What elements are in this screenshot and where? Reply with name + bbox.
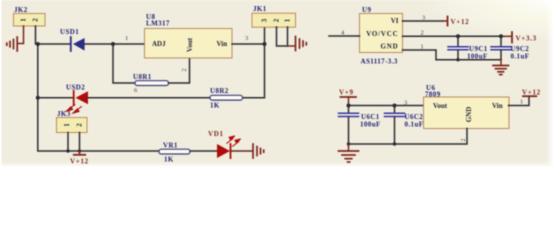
power port V+12 (JK3) bar xyxy=(74,154,85,156)
svg-text:0.1uF: 0.1uF xyxy=(511,53,530,61)
power port V+12 (U9) bar xyxy=(447,17,449,26)
wire node C up to JK1 pin3 xyxy=(264,28,266,45)
wire U9 VO to V+3.3 xyxy=(403,35,502,37)
svg-text:V+9: V+9 xyxy=(339,89,354,97)
wire VR1 to VD1 xyxy=(190,150,217,152)
ground (VD1, rotated right) xyxy=(253,144,264,158)
capacitor U9C1 top stub xyxy=(457,36,459,45)
junction U6C2 top xyxy=(393,104,397,108)
svg-text:U9: U9 xyxy=(362,6,371,14)
svg-text:GND: GND xyxy=(465,107,473,123)
wire V+3.3 stub xyxy=(501,35,512,37)
svg-text:3: 3 xyxy=(245,35,248,42)
svg-text:1: 1 xyxy=(63,123,71,127)
connector JK1 body xyxy=(252,13,296,27)
connector JK3 body xyxy=(57,118,88,133)
wire USD2 anode to U8R2 xyxy=(88,97,210,99)
capacitor U9C1 plates xyxy=(448,47,468,50)
wire U8R1 to U8 Vout drop xyxy=(169,58,190,83)
svg-text:1: 1 xyxy=(284,18,292,22)
wire U6 GND down to rail xyxy=(349,129,468,145)
svg-text:100uF: 100uF xyxy=(467,53,488,61)
ground (JK1, rotated right) xyxy=(296,37,307,51)
svg-text:Vout: Vout xyxy=(433,102,448,110)
diode USD1 xyxy=(71,37,85,51)
svg-text:1: 1 xyxy=(520,99,523,106)
svg-text:AS1117-3.3: AS1117-3.3 xyxy=(361,58,398,66)
wire JK1 pin2 and pin1 to ground xyxy=(277,27,288,46)
svg-text:2: 2 xyxy=(421,29,424,36)
wire U9 left pin 4 stub xyxy=(329,35,360,37)
wire JK2 pin1 to ground xyxy=(19,26,24,44)
wire node B to U8 ADJ pin xyxy=(113,43,145,45)
svg-text:2: 2 xyxy=(460,138,467,141)
svg-text:0.1uF: 0.1uF xyxy=(405,121,424,129)
capacitor U6C2 bottom stub xyxy=(394,117,396,144)
svg-text:Vin: Vin xyxy=(492,102,503,110)
junction node C (264.5,44) xyxy=(263,42,267,46)
junction U9C2 top xyxy=(499,34,503,38)
resistor U8R1 xyxy=(135,81,169,86)
power port V+12 (JK3) stub xyxy=(79,150,81,155)
LED VD1 xyxy=(217,144,231,158)
wire U9 VI to V+12 port xyxy=(403,20,444,22)
capacitor U6C1 bottom stub xyxy=(348,117,350,144)
svg-text:JK1: JK1 xyxy=(253,5,267,13)
svg-text:1K: 1K xyxy=(210,102,220,110)
svg-text:USD1: USD1 xyxy=(60,28,79,36)
wire VD1 to ground xyxy=(231,150,253,152)
svg-text:U8R1: U8R1 xyxy=(133,73,152,81)
capacitor U9C1 bottom stub xyxy=(457,51,459,60)
wire node C down to U8R2 wire xyxy=(243,44,265,98)
regulator U9 body xyxy=(360,14,403,53)
svg-text:VO/VCC: VO/VCC xyxy=(366,30,398,38)
LED VD1 emission arrows xyxy=(227,136,241,146)
svg-text:V+12: V+12 xyxy=(451,18,470,26)
svg-text:1K: 1K xyxy=(164,156,174,164)
ground (U9 rail) bars xyxy=(493,66,509,75)
svg-text:ADJ: ADJ xyxy=(152,40,166,48)
regulator U6 body xyxy=(424,97,510,129)
svg-text:2: 2 xyxy=(273,18,281,22)
svg-text:V+12: V+12 xyxy=(522,89,541,97)
ground (JK2, rotated left) xyxy=(7,37,17,51)
wire U9 GND to ground rail xyxy=(403,50,502,60)
LED USD2 emission arrows xyxy=(66,105,81,114)
junction U9C1 bottom xyxy=(456,58,459,61)
power port V+3.3 bar xyxy=(511,32,513,43)
ground (U6 rail) bars xyxy=(339,151,359,162)
svg-text:2: 2 xyxy=(76,123,84,127)
capacitor U6C1 top stub xyxy=(348,106,350,113)
wire lower horizontal (left part, node 38 to USD2) xyxy=(38,97,74,99)
wire JK3 pin1 to bottom wire xyxy=(67,133,69,152)
junction node B (113,44) xyxy=(111,42,115,46)
wire V+9 node to U6 Vout xyxy=(349,105,425,107)
svg-text:2: 2 xyxy=(32,18,40,22)
capacitor U6C1 plates xyxy=(339,113,359,116)
ground (U6 rail) stub xyxy=(348,144,350,151)
svg-text:2: 2 xyxy=(181,68,188,71)
regulator U8 body xyxy=(145,29,233,59)
wire JK2 pin2 down xyxy=(35,26,37,44)
junction JK3 pin2 at bottom wire xyxy=(78,149,81,152)
junction U6C1 bottom xyxy=(347,142,350,145)
svg-text:1: 1 xyxy=(20,18,28,22)
junction U9C1 top xyxy=(456,34,460,38)
connector JK2 body xyxy=(14,14,46,27)
capacitor U9C2 top stub xyxy=(500,36,502,45)
power port V+9 stub xyxy=(348,97,350,106)
wire node to USD1 cathode xyxy=(38,43,71,45)
svg-text:VD1: VD1 xyxy=(208,130,224,138)
wire U6 Vin to V+12 port xyxy=(509,97,530,106)
LED USD2 xyxy=(74,91,88,105)
resistor U8R2 xyxy=(210,95,243,100)
junction at node (38,44) xyxy=(36,42,40,46)
svg-text:Vout: Vout xyxy=(186,37,194,52)
svg-text:3: 3 xyxy=(404,100,407,107)
junction at (38,97.7) xyxy=(36,96,40,100)
svg-text:VI: VI xyxy=(391,17,399,25)
power port V+9 bar xyxy=(341,96,357,98)
svg-text:GND: GND xyxy=(381,43,399,51)
svg-text:VR1: VR1 xyxy=(163,142,178,150)
capacitor U6C2 plates xyxy=(385,113,405,116)
capacitor U9C2 bottom stub xyxy=(500,51,502,60)
junction V+9 node xyxy=(347,104,351,108)
wire U8 Vin to node C xyxy=(232,43,265,45)
wire JK1 pin1 to ground symbol xyxy=(288,45,295,47)
wire JK3 pin2 to V+12 port xyxy=(79,133,81,151)
junction U6C2 bottom xyxy=(393,142,396,145)
capacitor U6C2 top stub xyxy=(394,106,396,113)
svg-text:V+12: V+12 xyxy=(70,158,89,166)
svg-text:JK3: JK3 xyxy=(57,110,71,118)
svg-text:1: 1 xyxy=(125,35,128,42)
svg-text:V+3.3: V+3.3 xyxy=(516,35,537,43)
wire node B down to U8R1 xyxy=(113,44,135,83)
svg-text:USD2: USD2 xyxy=(66,84,85,92)
junction JK3 pin1 at bottom wire xyxy=(66,149,69,152)
wire USD1 anode to node B xyxy=(85,43,113,45)
svg-text:Vin: Vin xyxy=(217,40,228,48)
power port V+12 (U9) stub xyxy=(443,20,447,22)
svg-text:U8R2: U8R2 xyxy=(210,87,229,95)
svg-text:JK2: JK2 xyxy=(14,6,28,14)
svg-text:3: 3 xyxy=(261,18,269,22)
capacitor U9C2 plates xyxy=(491,47,511,50)
svg-text:100uF: 100uF xyxy=(360,121,381,129)
wire left vertical (node 38 down to bottom wire) xyxy=(38,44,159,151)
ground (U9 rail) stub xyxy=(500,60,502,65)
power port V+12 (U6) bar xyxy=(523,95,536,97)
resistor VR1 xyxy=(159,149,190,154)
svg-text:LM317: LM317 xyxy=(146,20,170,28)
